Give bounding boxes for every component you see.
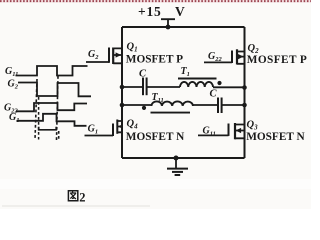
capacitor C (lower branch) xyxy=(218,98,222,114)
timing dashed line 1 xyxy=(35,79,37,140)
node G1 (gate label of Q4) xyxy=(88,123,98,135)
wire: G22 waveform trace xyxy=(16,103,87,111)
wire: upper branch middle segment xyxy=(147,86,180,88)
transistor Q4 (MOSFET N, bottom-left) xyxy=(85,120,123,137)
node G11 (gate label of Q3) xyxy=(203,126,216,138)
node: right rail upper junction xyxy=(242,85,247,90)
wire: right rail xyxy=(244,27,246,158)
node G2 (waveform label) xyxy=(8,78,19,90)
timing dashed line 2 xyxy=(57,76,59,140)
node G11 (waveform label) xyxy=(5,66,18,78)
wire: upper branch left segment xyxy=(122,86,143,88)
polarity dot of T11 xyxy=(142,106,146,110)
svg-text:MOSFET N: MOSFET N xyxy=(126,131,185,143)
node: left rail upper junction xyxy=(120,85,125,90)
svg-text:MOSFET N: MOSFET N xyxy=(246,131,305,143)
capacitor C (upper branch) xyxy=(143,78,147,96)
wire: lower branch left segment xyxy=(122,104,152,106)
node G22 (waveform label) xyxy=(4,103,18,115)
svg-text:2: 2 xyxy=(79,190,85,204)
transistor Q3 (MOSFET N, bottom-right) xyxy=(198,123,245,139)
label MOSFET P (Q1) xyxy=(126,53,183,65)
svg-text:V: V xyxy=(175,4,185,19)
wire: lower branch right segment xyxy=(222,104,245,106)
label C (upper branch) xyxy=(139,69,147,80)
node: right rail lower junction xyxy=(242,103,247,108)
inductor T1 (transformer winding, upper) xyxy=(178,79,217,88)
wire: left rail xyxy=(121,27,123,158)
timing dashed stub 2b xyxy=(58,131,60,140)
node G2 (gate label of Q1) xyxy=(88,49,99,61)
dotted red page border (top edge) xyxy=(0,0,311,3)
polarity dot of T1 xyxy=(217,81,221,85)
wire: interval marker between timing lines xyxy=(39,127,57,130)
label T11 xyxy=(152,92,164,104)
supply terminal T-bar xyxy=(161,19,175,27)
label C (lower branch) xyxy=(210,89,218,100)
faint scan artifact line xyxy=(2,205,150,207)
label Q2 xyxy=(248,43,260,55)
label MOSFET N (Q4) xyxy=(126,131,185,143)
label T1 xyxy=(181,66,190,78)
ground xyxy=(167,158,188,175)
transistor Q2 (MOSFET P, top-right) xyxy=(204,49,245,64)
svg-text:MOSFET P: MOSFET P xyxy=(247,54,307,66)
transistor Q1 (MOSFET P, top-left) xyxy=(86,48,122,65)
node G1 (waveform label) xyxy=(9,112,19,124)
label Q3 xyxy=(247,119,259,131)
wire: bottom rail xyxy=(122,157,245,159)
node G22 (gate label of Q2) xyxy=(208,51,222,63)
label Q4 xyxy=(127,119,139,131)
svg-text:+15: +15 xyxy=(138,4,162,19)
supply label +15 V xyxy=(138,4,185,19)
caption 图2 xyxy=(68,190,85,204)
wire: G11 waveform trace xyxy=(16,66,88,76)
ground junction node xyxy=(174,156,179,161)
wire: lower branch middle segment xyxy=(193,104,218,106)
svg-text:MOSFET P: MOSFET P xyxy=(126,53,183,65)
junction supply/top rail xyxy=(166,25,171,30)
svg-text:C: C xyxy=(210,89,218,100)
label MOSFET N (Q3) xyxy=(246,131,305,143)
wire: upper branch right segment xyxy=(213,86,245,88)
wire: G1 waveform trace xyxy=(17,114,87,126)
node: left rail lower junction xyxy=(120,103,125,108)
timing dashed stub 1b xyxy=(38,97,40,140)
label MOSFET P (Q2) xyxy=(247,54,307,66)
label Q1 xyxy=(127,42,138,54)
svg-text:C: C xyxy=(139,69,147,80)
inductor T11 (transformer winding, lower) xyxy=(151,101,194,112)
wire: top rail xyxy=(122,26,245,28)
wire: G2 waveform trace xyxy=(18,83,91,97)
